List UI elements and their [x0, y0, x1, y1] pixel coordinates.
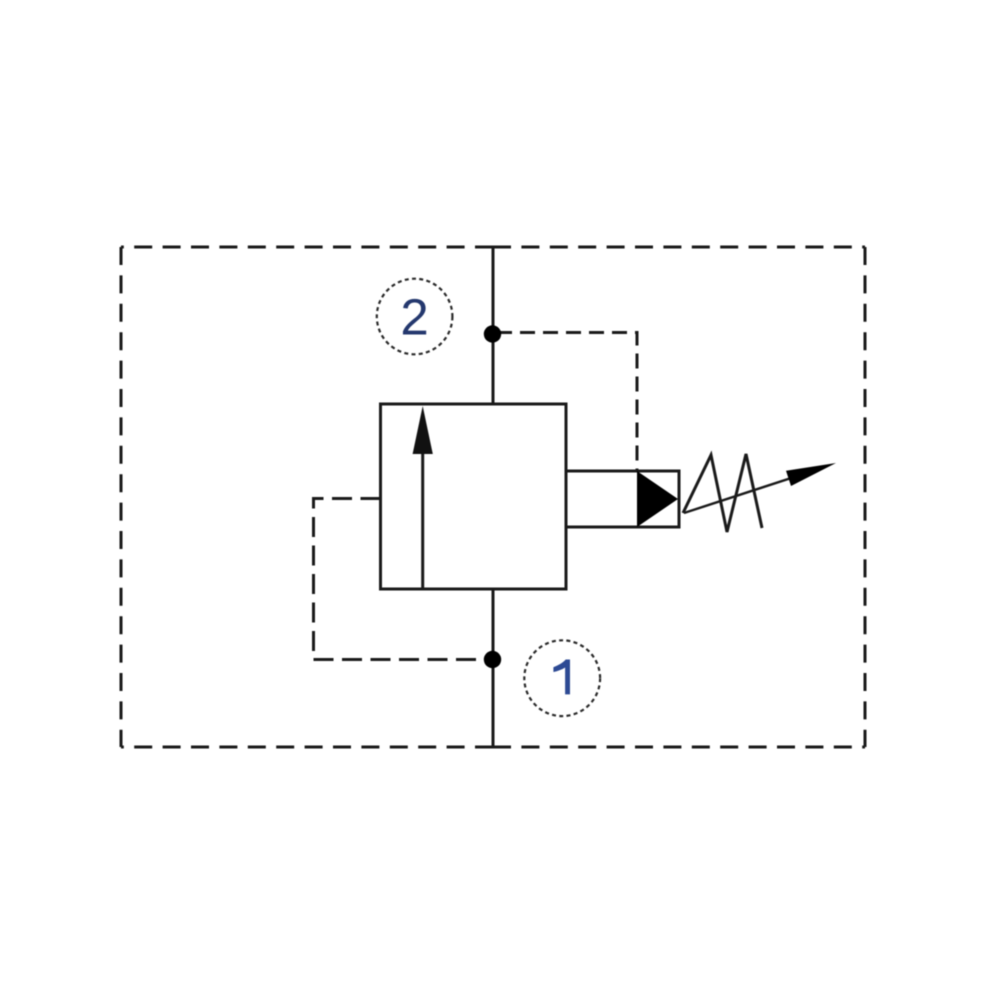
svg-text:2: 2 [400, 289, 428, 346]
